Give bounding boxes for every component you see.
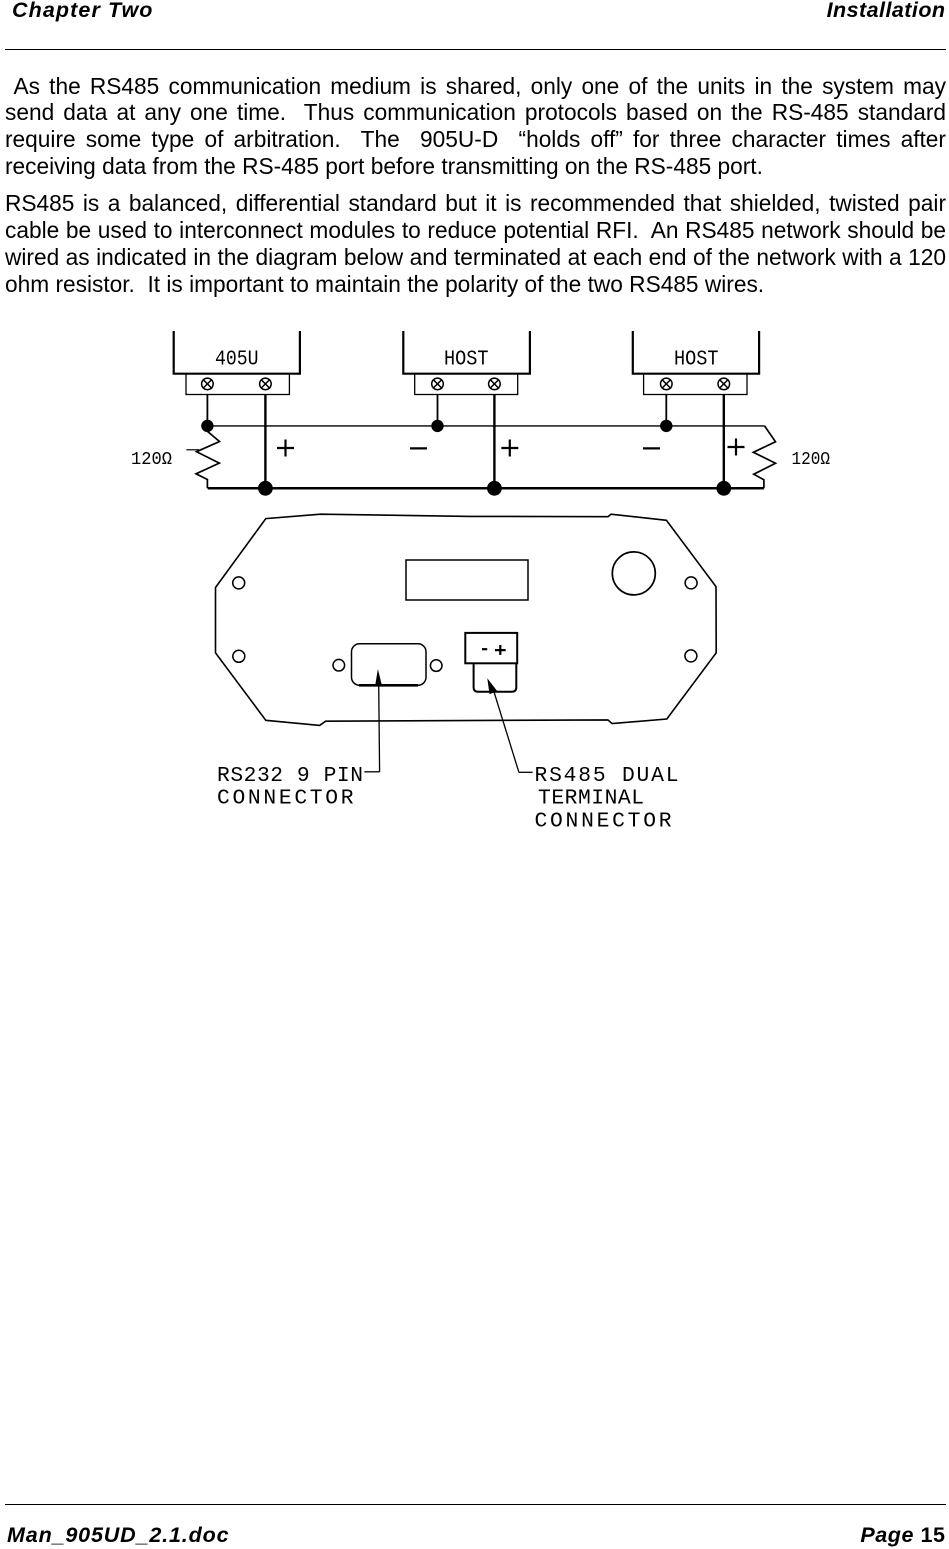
header left: Chapter Two [12,0,154,21]
value label 120 ohm left [131,449,172,470]
junction dot C2/bottom bus [716,481,731,496]
polarity label plus (second pair) [501,440,518,457]
polarity mark plus on terminal block [495,645,506,655]
polarity mark minus on terminal block [482,648,487,650]
paragraph 1 [5,73,946,180]
mounting hole top-right [685,577,697,589]
paragraph 2 [5,190,946,297]
junction dot B2/bottom bus [487,481,502,496]
RS485 terminal block [465,633,517,663]
RS232 DB9 connector [352,644,427,686]
polarity label minus (third pair) [643,447,660,449]
svg-text:CONNECTOR: CONNECTOR [217,787,354,811]
arrowhead to RS485 connector [487,678,497,694]
junction dot C1/top bus [660,420,672,432]
terminal A1 (405U negative) [202,378,214,390]
device box HOST (right) [633,331,759,374]
RS485 plug body [474,663,517,692]
mounting hole bottom-left [233,650,245,662]
device box 405U [174,331,300,374]
junction dot B1/top bus [431,420,443,432]
svg-text:RS485 DUAL: RS485 DUAL [535,764,679,788]
header rule [5,49,946,50]
terminal strip of middle HOST [415,374,518,395]
DB9 screw hole right [430,660,442,672]
value label 120 ohm right [792,449,831,470]
label CONNECTOR (RS485) [535,809,672,833]
label HOST (middle) [444,348,489,372]
label HOST (right) [674,348,719,372]
bottom bus wire (positive) [208,487,764,490]
terminal B1 (HOST negative) [432,378,444,390]
wire: HOST terminal B1 down to top bus [437,395,439,426]
svg-text:120Ω: 120Ω [131,449,172,470]
label window [406,560,528,600]
DB9 screw hole left [333,659,345,671]
junction dot A2/bottom bus [258,481,273,496]
terminal C1 (HOST right negative) [661,378,673,390]
header right: Installation [827,0,946,21]
wire: 405U terminal A2 down to bottom bus [264,395,266,489]
terminal strip of 405U [186,374,289,395]
label 405U [215,348,259,372]
mounting hole bottom-right [685,650,697,662]
footer right: page number [860,1524,945,1546]
svg-text:405U: 405U [215,348,259,372]
footer rule [5,1504,946,1505]
svg-text:120Ω: 120Ω [792,449,831,470]
resistor 120 ohm right termination [753,426,775,488]
leader line to RS232 connector [364,684,379,772]
arrowhead to RS232 connector [375,669,382,685]
wire: HOST right terminal C2 down to bottom bus [723,395,725,489]
mounting hole top-left [233,577,245,589]
terminal A2 (405U positive) [260,378,272,390]
terminal strip of right HOST [644,374,747,395]
leader line to RS485 connector [493,687,533,772]
label TERMINAL [538,787,644,811]
label CONNECTOR (RS232) [217,787,354,811]
polarity label plus (first pair) [277,440,294,457]
svg-text:CONNECTOR: CONNECTOR [535,809,672,833]
footer left: document name [7,1524,229,1546]
terminal B2 (HOST positive) [489,378,501,390]
svg-text:TERMINAL: TERMINAL [538,787,644,811]
label RS232 9 PIN [217,764,363,788]
label RS485 DUAL [535,764,679,788]
terminal C2 (HOST right positive) [718,378,730,390]
svg-text:RS232 9 PIN: RS232 9 PIN [217,764,363,788]
device box HOST (middle) [403,331,530,374]
wire: 405U terminal A1 down to top bus [206,395,208,426]
antenna hole [612,552,655,595]
wire: HOST right terminal C1 down to top bus [665,395,667,426]
top bus wire (negative) [207,425,764,427]
wire: HOST terminal B2 down to bottom bus [493,395,495,489]
polarity label minus (second pair) [410,447,427,449]
polarity label plus (third pair) [728,439,745,456]
resistor 120 ohm left termination [186,426,219,488]
svg-text:HOST: HOST [444,348,489,372]
svg-text:HOST: HOST [674,348,719,372]
junction dot A1/top bus [201,420,213,432]
enclosure outline (bottom view) [216,514,717,725]
